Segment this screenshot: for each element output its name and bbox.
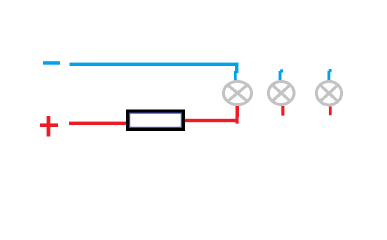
wire: blue vertical drop at node to lamp L1 <box>235 63 238 74</box>
lamp L2 (circle with cross) <box>268 82 294 105</box>
resistor R1 (rectangle body) <box>126 110 185 132</box>
wire: red vertical rise to lamp L1 bottom <box>236 106 239 124</box>
lamp L2 top lead stub (blue) <box>279 69 284 81</box>
lamp L1 (circle with cross) <box>224 82 252 105</box>
lamp L1 top lead stub (blue) <box>234 71 237 81</box>
wire: red from plus terminal to resistor R1 (horizontal) <box>69 122 128 125</box>
lamp L3 bottom lead stub (red) <box>329 106 332 115</box>
lamp L3 (circle with cross) <box>316 82 341 105</box>
battery negative terminal symbol (minus) <box>43 61 60 64</box>
lamp L2 bottom lead stub (red) <box>281 106 284 116</box>
lamp L1 bottom lead stub (red) <box>236 106 239 117</box>
wire: blue from minus terminal to lamp L1 top (horizontal) <box>70 63 239 66</box>
battery positive terminal symbol (plus) <box>40 116 58 137</box>
lamp L3 top lead stub (blue) <box>328 69 332 81</box>
wire: red from resistor R1 to lamp L1 bottom (horizontal) <box>183 119 239 122</box>
